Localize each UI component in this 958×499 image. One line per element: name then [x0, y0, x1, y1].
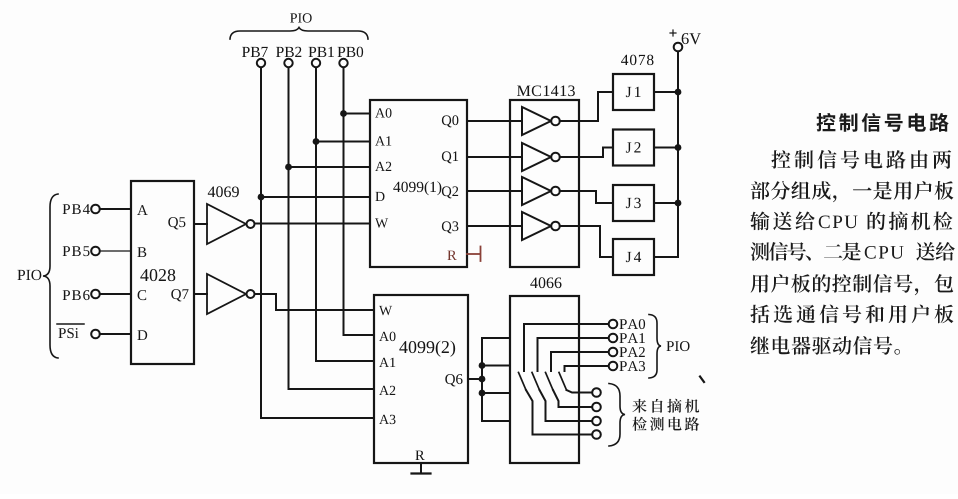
wire 4028.Q7 to inverter [194, 293, 207, 295]
wire U4a to J1 [560, 92, 613, 121]
detect group brace [609, 384, 625, 447]
switch S1 contact and arm [519, 324, 527, 390]
decoder U1 4028 [131, 181, 194, 364]
inverter U2b 4069 [207, 274, 255, 314]
wire 4099(1).Q3 to MC1413 [467, 225, 522, 227]
lower pin 1 [592, 388, 601, 397]
terminal PB1 [309, 47, 334, 67]
junction Q6 node [479, 376, 486, 383]
wire inverter U2a out to 4099(1).W [255, 223, 371, 225]
ground below 4099(2).R [412, 463, 431, 474]
terminal PB0 [338, 47, 364, 68]
terminal PSi (active low) [57, 324, 100, 338]
terminal PA1 [609, 333, 645, 343]
wire S1 to lower pin 4 [526, 390, 592, 435]
relay J3 [613, 185, 654, 221]
terminal PB4 [63, 204, 100, 214]
relay J2 [613, 130, 654, 166]
driver gate U4a [522, 107, 560, 135]
lower pin 4 [592, 430, 601, 439]
terminal PB6 [63, 290, 100, 300]
switch S2 contact and arm [532, 338, 540, 390]
switch S3 contact and arm [546, 352, 554, 390]
wire S2 to PA1 [538, 337, 609, 339]
terminal PA3 [609, 361, 645, 371]
top PIO brace [230, 28, 368, 40]
left PIO brace [43, 194, 58, 358]
text block title 控制信号电路 [817, 113, 949, 132]
wire Q6 control branch vertical [481, 338, 483, 421]
wire PB5 to 4028.B [100, 250, 131, 252]
wire PB7 down to 4099(2).A3 [261, 417, 374, 419]
wire 4099(2).Q6 out [468, 378, 482, 380]
wire J2 to +6V rail [654, 144, 681, 151]
wire PB7 to 4099(1).D [258, 194, 370, 201]
wire U4d to J4 [560, 226, 613, 257]
wire PB4 to 4028.A [100, 208, 131, 210]
wire PB1 vertical bus [315, 68, 317, 362]
wire PB2 vertical bus [288, 68, 290, 390]
wire U4c to J3 [560, 191, 613, 203]
analog switch U6 4066 [510, 277, 579, 463]
latch U5 4099(2) [374, 295, 468, 463]
reset stub 4099(1).R [467, 247, 481, 262]
wire U4b to J2 [560, 148, 613, 158]
terminal PB2 [276, 47, 301, 67]
wire S2 to lower pin 3 [540, 390, 593, 421]
PIO label (left) [17, 270, 41, 280]
lower pin 3 [592, 417, 601, 426]
wire PB7 vertical bus [260, 68, 262, 419]
wire S3 to lower pin 2 [553, 390, 592, 407]
driver gate U4c [522, 177, 560, 205]
terminal PA2 [609, 347, 645, 357]
text block paragraph [750, 150, 955, 355]
wire control stub 4 into 4066 [482, 420, 510, 422]
wire PB1 down to 4099(2).A1 [316, 360, 374, 362]
PIO label (top) [290, 13, 312, 22]
wire 4099(1).Q1 to MC1413 [467, 156, 522, 158]
PA group brace [649, 315, 661, 379]
PIO label (right) [666, 341, 689, 351]
wire PB2 to 4099(1).A2 [285, 164, 370, 171]
wire J3 to +6V rail [654, 200, 681, 207]
wire PB0 vertical bus [343, 68, 345, 336]
stray mark [700, 377, 704, 383]
lower pin 2 [592, 403, 601, 412]
wire S4 to PA3 [565, 365, 609, 367]
driver gate U4d [522, 212, 560, 240]
wire 4028.Q5 to inverter [194, 223, 207, 225]
relay J1 [613, 74, 654, 110]
+6V supply terminal [670, 30, 701, 51]
relay J4 [613, 239, 654, 275]
wire control stub 3 into 4066 [479, 390, 510, 397]
wire J1 to +6V rail [654, 89, 681, 96]
switch S4 contact and arm [559, 366, 567, 390]
wire PB2 down to 4099(2).A2 [289, 388, 375, 390]
wire S4 to lower pin 1 [567, 390, 593, 393]
wire PB1 to 4099(1).A1 [313, 138, 370, 145]
terminal PB7 [242, 47, 268, 67]
wire PB0 down to 4099(2).A0 [344, 334, 375, 336]
terminal PB5 [63, 246, 100, 256]
wire PB0 to 4099(1).A0 [340, 110, 370, 117]
wire 4099(1).Q0 to MC1413 [467, 120, 522, 122]
wire S3 to PA2 [551, 351, 609, 353]
wire PSi to 4028.D [100, 333, 131, 335]
4078 label [621, 55, 653, 66]
wire inverter U2b out to 4099(2).W [255, 294, 375, 310]
terminal PA0 [609, 319, 645, 329]
wire PB6 to 4028.C [100, 293, 131, 295]
wire control stub 1 into 4066 [482, 337, 510, 339]
wire J4 to +6V rail [654, 256, 678, 258]
wire S1 to PA0 [524, 323, 609, 325]
inverter U2a 4069 [207, 204, 255, 244]
driver U4 MC1413 [510, 85, 579, 267]
wire +6V rail vertical [677, 52, 679, 258]
label 来自摘机检测电路 [632, 399, 699, 413]
driver gate U4b [522, 143, 560, 171]
4069 label [208, 186, 239, 197]
wire 4099(1).Q2 to MC1413 [467, 190, 522, 192]
latch U3 4099(1) [370, 100, 467, 267]
wire control stub 2 into 4066 [479, 362, 510, 369]
